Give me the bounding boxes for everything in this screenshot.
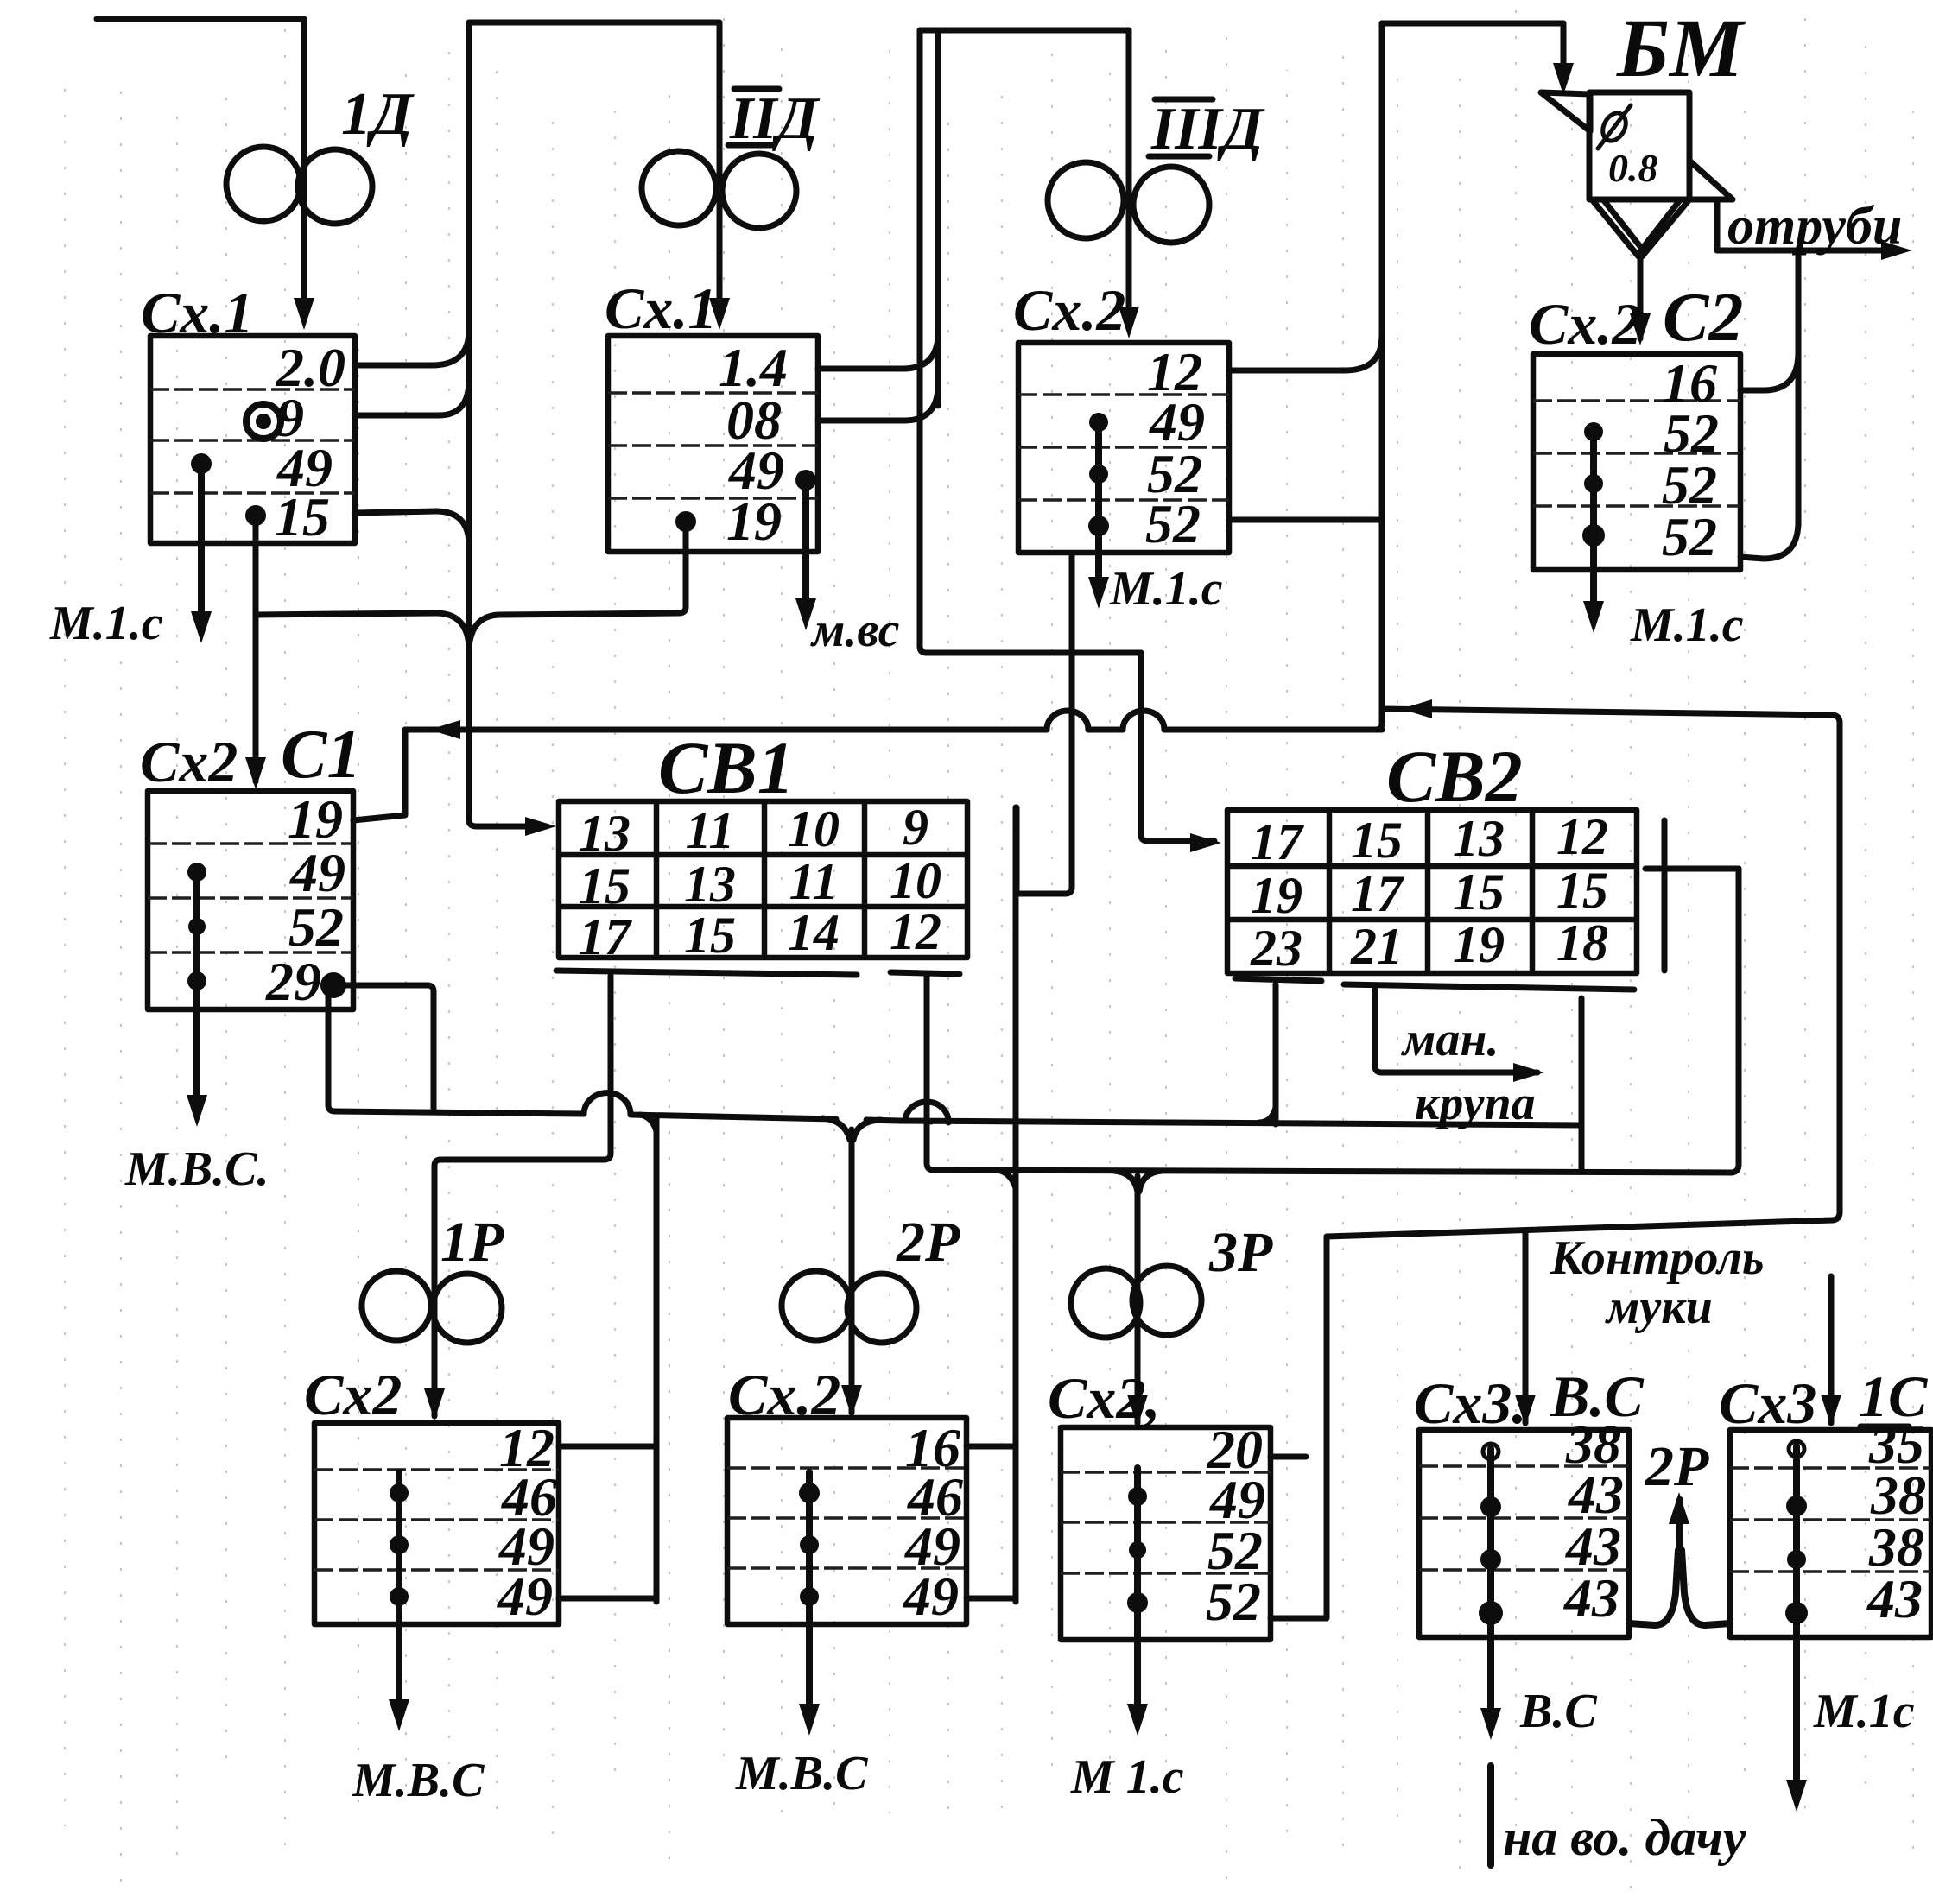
svg-text:49: 49 — [289, 842, 345, 903]
svg-text:17: 17 — [1251, 813, 1304, 870]
svg-text:19: 19 — [1251, 867, 1302, 924]
svg-text:13: 13 — [579, 805, 631, 862]
svg-text:М.В.С: М.В.С — [735, 1747, 868, 1800]
svg-text:49: 49 — [497, 1566, 553, 1627]
svg-text:19: 19 — [288, 788, 343, 850]
svg-text:52: 52 — [288, 896, 344, 958]
svg-text:Контроль: Контроль — [1550, 1231, 1764, 1285]
svg-text:ман.: ман. — [1401, 1013, 1499, 1066]
svg-text:БМ: БМ — [1616, 2, 1746, 94]
svg-text:1Р: 1Р — [440, 1211, 504, 1274]
svg-text:Сх2: Сх2 — [140, 729, 238, 794]
svg-text:12: 12 — [890, 903, 941, 960]
svg-text:муки: муки — [1605, 1281, 1713, 1334]
svg-text:М.1.с: М.1.с — [1109, 562, 1223, 616]
svg-text:Сх.1: Сх.1 — [605, 275, 717, 341]
svg-text:М.1.с: М.1.с — [49, 597, 163, 650]
svg-text:10: 10 — [788, 800, 840, 857]
svg-text:15: 15 — [1351, 812, 1403, 869]
svg-text:15: 15 — [275, 486, 330, 547]
svg-text:В.С: В.С — [1519, 1685, 1597, 1738]
svg-text:11: 11 — [686, 802, 735, 859]
svg-text:СВ1: СВ1 — [658, 726, 795, 809]
svg-text:52: 52 — [1662, 506, 1717, 567]
svg-text:17: 17 — [579, 908, 632, 965]
svg-text:13: 13 — [684, 856, 736, 913]
svg-text:1Д: 1Д — [341, 81, 415, 148]
svg-text:19: 19 — [1453, 916, 1505, 973]
svg-text:10: 10 — [890, 852, 941, 909]
svg-text:12: 12 — [1556, 808, 1608, 865]
svg-text:52: 52 — [1145, 493, 1201, 554]
svg-text:Сх.2: Сх.2 — [1013, 277, 1125, 343]
svg-text:17: 17 — [1351, 865, 1404, 922]
svg-text:Сх3.: Сх3. — [1414, 1370, 1526, 1436]
svg-text:52: 52 — [1206, 1571, 1261, 1632]
svg-text:Сх3: Сх3 — [1719, 1370, 1816, 1436]
svg-text:Сх.2: Сх.2 — [1529, 291, 1641, 357]
svg-text:21: 21 — [1350, 918, 1403, 975]
svg-text:3Р: 3Р — [1208, 1221, 1273, 1284]
svg-text:2Р: 2Р — [896, 1211, 960, 1274]
svg-text:Сх2: Сх2 — [304, 1362, 402, 1427]
svg-text:19: 19 — [726, 490, 782, 552]
svg-text:СВ2: СВ2 — [1386, 735, 1523, 818]
svg-text:М.В.С: М.В.С — [352, 1754, 485, 1807]
svg-text:1С: 1С — [1859, 1363, 1928, 1429]
svg-text:43: 43 — [1563, 1567, 1619, 1629]
svg-text:В.С: В.С — [1550, 1363, 1644, 1429]
svg-text:м.вс: м.вс — [810, 604, 900, 657]
svg-text:М.В.С.: М.В.С. — [124, 1142, 269, 1196]
svg-text:29: 29 — [265, 951, 321, 1012]
svg-text:М.1.с: М.1.с — [1630, 598, 1744, 652]
svg-text:23: 23 — [1250, 920, 1302, 977]
svg-text:на во. дачу: на во. дачу — [1503, 1809, 1746, 1866]
svg-text:М.1с: М.1с — [1813, 1685, 1915, 1738]
svg-text:9: 9 — [903, 799, 928, 856]
svg-text:С1: С1 — [281, 717, 361, 793]
svg-text:15: 15 — [1556, 862, 1608, 919]
svg-text:отруби: отруби — [1727, 197, 1902, 256]
svg-text:2Р: 2Р — [1645, 1435, 1709, 1498]
svg-text:43: 43 — [1866, 1568, 1923, 1629]
svg-text:14: 14 — [788, 904, 840, 961]
svg-text:0.8: 0.8 — [1608, 146, 1658, 190]
svg-text:49: 49 — [903, 1566, 959, 1627]
svg-text:Сх.2: Сх.2 — [728, 1362, 840, 1427]
svg-text:15: 15 — [1453, 863, 1505, 920]
svg-text:IIД: IIД — [729, 85, 820, 152]
svg-text:15: 15 — [579, 857, 631, 914]
svg-text:М 1.с: М 1.с — [1070, 1750, 1184, 1804]
svg-text:крупа: крупа — [1415, 1077, 1536, 1130]
svg-text:13: 13 — [1453, 810, 1505, 867]
svg-text:IIIД: IIIД — [1150, 96, 1265, 162]
svg-text:С2: С2 — [1663, 280, 1743, 356]
svg-text:Сх.1: Сх.1 — [141, 280, 253, 345]
svg-text:18: 18 — [1556, 914, 1608, 971]
svg-text:Сх2,: Сх2, — [1048, 1365, 1160, 1431]
svg-text:11: 11 — [789, 853, 839, 910]
svg-text:15: 15 — [684, 907, 736, 964]
